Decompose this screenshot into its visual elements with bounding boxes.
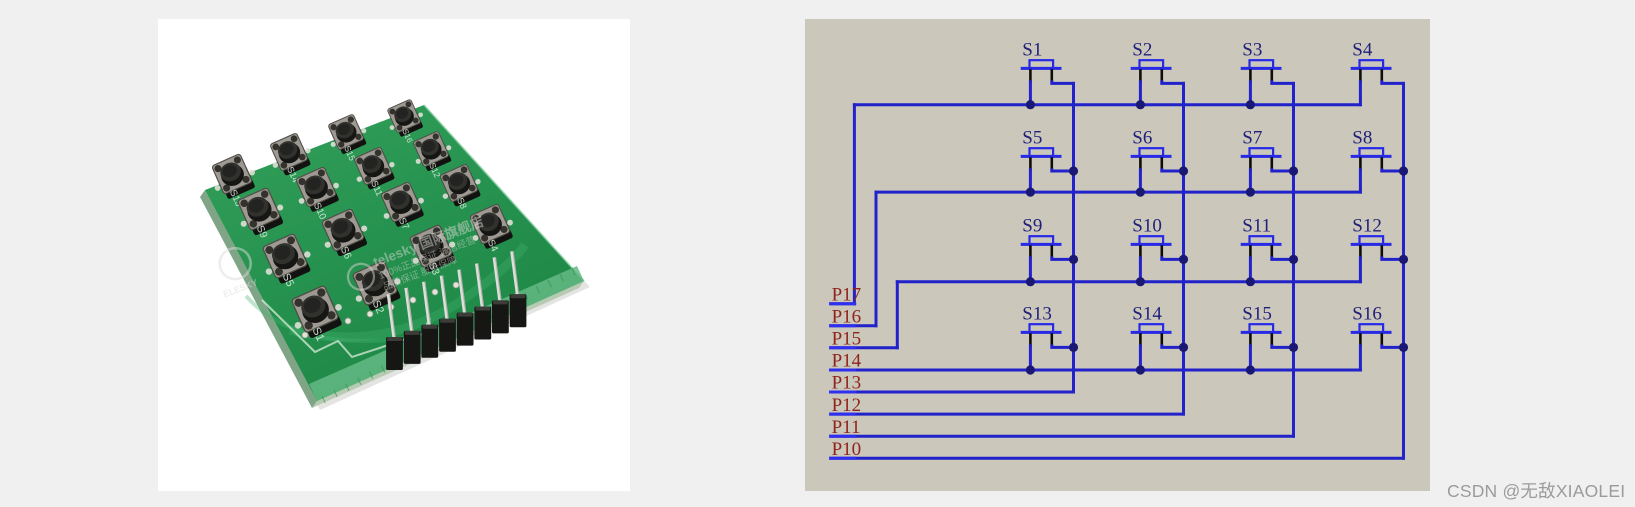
wire S11 left pin to row 3 bus — [1249, 258, 1252, 282]
junction S14 tap on column 2 — [1179, 343, 1188, 352]
junction S15 tap on column 3 — [1289, 343, 1298, 352]
wire S9 left pin to row 3 bus — [1029, 258, 1032, 282]
junction S6 tap on column 2 — [1179, 166, 1188, 175]
wire net P11 horizontal — [831, 435, 1294, 438]
svg-text:S1: S1 — [1022, 40, 1042, 61]
junction S12 tap on column 4 — [1399, 255, 1408, 264]
wire S15 left pin to row 4 bus — [1249, 346, 1252, 370]
svg-text:S11: S11 — [1242, 216, 1271, 237]
wire S16 right pin to column 4 — [1382, 346, 1404, 348]
pushbutton switch S14 — [1132, 304, 1170, 347]
junction S15 left pin on row 4 bus — [1246, 365, 1255, 374]
junction S6 left pin on row 2 bus — [1136, 188, 1145, 197]
svg-text:S5: S5 — [1022, 128, 1042, 149]
svg-text:S3: S3 — [1242, 40, 1262, 61]
svg-text:P11: P11 — [832, 417, 861, 438]
wire S12 right pin to column 4 — [1382, 258, 1404, 260]
photo background panel — [158, 19, 630, 491]
svg-text:S14: S14 — [1132, 304, 1162, 325]
wire P16 vertical riser to row 2 bus — [875, 192, 878, 326]
wire P17 vertical riser to row 1 bus — [853, 105, 856, 304]
wire net P12 horizontal — [831, 413, 1184, 416]
wire row 4 bus (net P14) — [831, 369, 1361, 372]
wire S7 right pin to column 3 — [1272, 170, 1294, 171]
junction S5 tap on column 1 — [1069, 166, 1078, 175]
wire net P14 horizontal — [831, 369, 1361, 372]
svg-text:P16: P16 — [832, 306, 862, 327]
wire S9 right pin to column 1 — [1052, 258, 1074, 260]
wire net P15 horizontal — [831, 346, 898, 349]
junction S13 left pin on row 4 bus — [1026, 365, 1035, 374]
wire row 3 bus (net P15) — [897, 280, 1360, 283]
wire S15 right pin to column 3 — [1272, 346, 1294, 348]
schematic background panel — [805, 19, 1430, 491]
junction S3 left pin on row 1 bus — [1246, 100, 1255, 109]
wire S14 left pin to row 4 bus — [1139, 346, 1142, 370]
wire S1 right pin to column 1 — [1052, 82, 1074, 84]
wire net P10 horizontal — [831, 457, 1404, 460]
svg-text:S13: S13 — [1022, 304, 1052, 325]
junction S13 tap on column 1 — [1069, 343, 1078, 352]
svg-text:P13: P13 — [832, 373, 862, 394]
svg-text:S16: S16 — [1352, 304, 1382, 325]
junction S10 tap on column 2 — [1179, 255, 1188, 264]
pushbutton switch S5 — [1022, 128, 1060, 171]
svg-text:S9: S9 — [1022, 216, 1042, 237]
wire column 3 vertical (net P11) — [1292, 83, 1295, 436]
pushbutton switch S9 — [1022, 216, 1060, 259]
pushbutton switch S7 — [1242, 128, 1280, 171]
junction S1 left pin on row 1 bus — [1026, 100, 1035, 109]
wire S5 left pin to row 2 bus — [1029, 170, 1032, 192]
wire S4 left pin to row 1 bus — [1359, 82, 1362, 105]
junction S7 left pin on row 2 bus — [1246, 188, 1255, 197]
wire S10 left pin to row 3 bus — [1139, 258, 1142, 282]
svg-text:P15: P15 — [832, 329, 862, 350]
svg-text:S10: S10 — [1132, 216, 1162, 237]
pushbutton switch S13 — [1022, 304, 1060, 347]
wire S1 left pin to row 1 bus — [1029, 82, 1032, 105]
wire S3 right pin to column 3 — [1272, 82, 1294, 84]
wire S2 right pin to column 2 — [1162, 82, 1184, 84]
svg-text:S12: S12 — [1352, 216, 1382, 237]
junction S9 left pin on row 3 bus — [1026, 277, 1035, 286]
junction S8 tap on column 4 — [1399, 166, 1408, 175]
pushbutton switch S4 — [1352, 40, 1390, 83]
pushbutton switch S15 — [1242, 304, 1280, 347]
pushbutton switch S10 — [1132, 216, 1170, 259]
svg-text:S15: S15 — [1242, 304, 1272, 325]
svg-text:S2: S2 — [1132, 40, 1152, 61]
junction S11 left pin on row 3 bus — [1246, 277, 1255, 286]
wire P15 vertical riser to row 3 bus — [896, 282, 899, 348]
svg-text:P17: P17 — [832, 284, 862, 305]
wire row 2 bus (net P16) — [876, 191, 1360, 194]
wire net P13 horizontal — [831, 391, 1074, 394]
pushbutton switch S16 — [1352, 304, 1390, 347]
wire S8 right pin to column 4 — [1382, 170, 1404, 171]
svg-text:S4: S4 — [1352, 40, 1373, 61]
svg-text:P10: P10 — [832, 439, 862, 460]
wire S3 left pin to row 1 bus — [1249, 82, 1252, 105]
wire S4 right pin to column 4 — [1382, 82, 1404, 84]
svg-text:P12: P12 — [832, 395, 862, 416]
wire S11 right pin to column 3 — [1272, 258, 1294, 260]
wire S14 right pin to column 2 — [1162, 346, 1184, 348]
junction S2 left pin on row 1 bus — [1136, 100, 1145, 109]
junction S16 tap on column 4 — [1399, 343, 1408, 352]
wire S6 left pin to row 2 bus — [1139, 170, 1142, 192]
pushbutton switch S8 — [1352, 128, 1390, 171]
junction S9 tap on column 1 — [1069, 255, 1078, 264]
wire column 2 vertical (net P12) — [1182, 83, 1185, 414]
wire S16 left pin to row 4 bus — [1359, 346, 1362, 370]
wire S5 right pin to column 1 — [1052, 170, 1074, 171]
pushbutton switch S6 — [1132, 128, 1170, 171]
junction S11 tap on column 3 — [1289, 255, 1298, 264]
svg-text:S6: S6 — [1132, 128, 1152, 149]
wire S13 left pin to row 4 bus — [1029, 346, 1032, 370]
wire column 4 vertical (net P10) — [1402, 83, 1405, 458]
pushbutton switch S12 — [1352, 216, 1390, 259]
wire S10 right pin to column 2 — [1162, 258, 1184, 260]
wire net P16 horizontal — [831, 324, 876, 327]
pushbutton switch S11 — [1242, 216, 1280, 259]
wire row 1 bus (net P17) — [854, 103, 1360, 106]
svg-text:S7: S7 — [1242, 128, 1262, 149]
pushbutton switch S2 — [1132, 40, 1170, 83]
wire S8 left pin to row 2 bus — [1359, 170, 1362, 192]
svg-text:S8: S8 — [1352, 128, 1372, 149]
wire S13 right pin to column 1 — [1052, 346, 1074, 348]
pushbutton switch S3 — [1242, 40, 1280, 83]
wire column 1 vertical (net P13) — [1072, 83, 1075, 392]
wire S2 left pin to row 1 bus — [1139, 82, 1142, 105]
junction S10 left pin on row 3 bus — [1136, 277, 1145, 286]
CSDN watermark — [1447, 478, 1625, 503]
junction S7 tap on column 3 — [1289, 166, 1298, 175]
wire S7 left pin to row 2 bus — [1249, 170, 1252, 192]
svg-text:P14: P14 — [832, 351, 862, 372]
junction S5 left pin on row 2 bus — [1026, 188, 1035, 197]
junction S14 left pin on row 4 bus — [1136, 365, 1145, 374]
wire net P17 horizontal — [831, 302, 855, 305]
pushbutton switch S1 — [1022, 40, 1060, 83]
wire S12 left pin to row 3 bus — [1359, 258, 1362, 282]
wire S6 right pin to column 2 — [1162, 170, 1184, 171]
